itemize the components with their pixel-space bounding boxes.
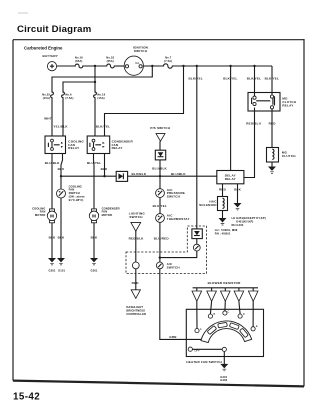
svg-text:LH G251(EXCEPT KY,KP): LH G251(EXCEPT KY,KP) (232, 216, 266, 220)
relay box cooling fan relay (45, 136, 66, 154)
wire blower resistor connector D to terminal D (239, 301, 240, 314)
svg-text:CONTROLLER: CONTROLLER (126, 312, 146, 316)
svg-text:BLK/YEL: BLK/YEL (223, 77, 237, 81)
label wire WHT (44, 116, 52, 120)
ground G101 (cooling fan switch) (58, 258, 64, 265)
MG clutch relay internals (coil + contact) (252, 95, 275, 109)
svg-text:BLU/YEL: BLU/YEL (153, 204, 167, 208)
svg-text:OFF: OFF (194, 349, 200, 353)
label wire RED/BLU (246, 122, 262, 126)
wire YEL/BLK fuse No.6 to cooling fan relay (62, 98, 64, 136)
diode box (cooling/condenser to A/C) (116, 171, 127, 181)
condenser fan relay internals (coil + contacts) (90, 139, 105, 150)
svg-text:(7.5A): (7.5A) (65, 96, 73, 100)
wire BLU/BLK cooling fan relay to cooling fan motor (51, 154, 53, 209)
wire battery junction down to fuse No.19 (94, 66, 96, 92)
svg-text:LH : 5UB01, M08: LH : 5UB01, M08 (215, 228, 238, 232)
junction dot A/C pressure switch tee (159, 175, 161, 177)
svg-text:BATTERY: BATTERY (43, 54, 58, 58)
junction dot bus A/C diode drop (196, 65, 198, 67)
label wire BLU/BLK (P/S) (152, 166, 167, 170)
svg-text:RELAY: RELAY (68, 146, 79, 150)
wire RED MG clutch relay to MG clutch (271, 108, 273, 148)
svg-text:BLU/YEL: BLU/YEL (87, 161, 101, 165)
fuse No.18 (top, before ignition switch) (106, 64, 116, 68)
junction dot bus condenser feed (182, 65, 184, 67)
svg-text:P/S SWITCH: P/S SWITCH (150, 126, 170, 130)
A/C switch dashed outline (126, 226, 207, 274)
svg-text:G201: G201 (49, 268, 56, 272)
label wire BLK/YEL (fuse 19) (96, 125, 110, 129)
heater fan switch terminal C (223, 311, 227, 315)
wire IG1 branch down and left to fuse No.25 (52, 66, 152, 92)
label wire RED (269, 122, 277, 126)
fuse No.25 (vertical) (51, 92, 54, 99)
wire delay relay RED output to HAC solenoid (222, 184, 224, 197)
svg-text:BLU: BLU (58, 167, 65, 171)
svg-text:Circuit Diagram: Circuit Diagram (17, 24, 91, 35)
label wire RED (delay relay) (219, 187, 227, 191)
dashlight brightness controller connector triangle (131, 290, 140, 299)
svg-text:RELAY: RELAY (282, 103, 293, 107)
heater fan switch terminal D (238, 314, 242, 318)
MG clutch coil symbol (272, 149, 274, 159)
heater fan switch rotary arc (201, 321, 252, 343)
svg-text:BLU/BLK: BLU/BLK (171, 172, 186, 176)
relay box MG clutch relay (248, 93, 280, 112)
label wire BLU/BLK (right of junction) (171, 172, 186, 176)
svg-text:G402: G402 (220, 378, 227, 382)
svg-text:BLK/YEL: BLK/YEL (265, 77, 279, 81)
lighting switch connector triangle (131, 222, 141, 231)
wire fuse2 to ignition switch (116, 65, 126, 67)
A/C thermostat (156, 214, 165, 223)
svg-text:SWITCH: SWITCH (129, 215, 142, 219)
A/C switch contact (upper) (193, 244, 200, 251)
svg-text:Carbureted Engine: Carbureted Engine (24, 45, 63, 50)
junction dot battery/fuse bus (94, 65, 96, 67)
svg-text:G101: G101 (58, 268, 65, 272)
ground G401 G402 (heater fan switch) (221, 364, 227, 371)
svg-text:(65A): (65A) (75, 59, 82, 63)
wire BLK/YEL bus drop to delay relay (230, 66, 232, 171)
svg-text:SWITCH: SWITCH (69, 191, 80, 195)
wire fuse1 to fuse2 (junction at x=95) (84, 65, 106, 67)
svg-text:(ON : above: (ON : above (69, 194, 86, 198)
wire horizontal BLU/BLK to diode and delay relay (61, 175, 217, 177)
wire A/C switch to dashlight brightness controller RED (135, 269, 137, 290)
cooling fan switch (thermo switch) (57, 189, 66, 198)
label wire YEL/BLK (53, 125, 68, 129)
svg-text:RH G402: RH G402 (232, 223, 244, 227)
svg-text:BLU/BLK: BLU/BLK (132, 172, 147, 176)
wire heater fan switch pivot to ground (223, 352, 225, 365)
cooling fan motor (47, 209, 56, 223)
fuse No.6 (vertical) (62, 92, 65, 99)
svg-text:RED: RED (219, 187, 227, 191)
junction dot fuse No.6 branch (94, 81, 96, 83)
svg-text:BLK: BLK (234, 187, 241, 191)
svg-text:BLK: BLK (58, 236, 65, 240)
condenser fan motor (89, 209, 98, 223)
label wire BLK (grounds row) (49, 236, 56, 240)
wire diode to A/C pressure switch (tee at y=176.2) (159, 160, 161, 189)
svg-text:BLU/BLK: BLU/BLK (45, 161, 60, 165)
wire BLK/YEL bus after fuse3 (174, 65, 272, 67)
svg-text:RELAY: RELAY (225, 177, 236, 181)
wire lighting switch connector to A/C switch RED/BLK (135, 231, 137, 262)
wire cooling fan motor to ground (51, 223, 53, 258)
svg-text:CLUTCH: CLUTCH (282, 154, 296, 158)
battery (47, 62, 56, 71)
relay box condenser fan relay (87, 136, 110, 154)
label wire BLK (delay relay) (234, 187, 241, 191)
svg-text:BLK: BLK (101, 167, 108, 171)
ground G201 (condenser fan motor) (91, 258, 97, 265)
svg-text:C: C (228, 310, 230, 313)
wire MG clutch to ground (271, 162, 273, 167)
wire blower resistor bracket (193, 288, 258, 291)
wire condenser fan motor to ground (93, 223, 95, 258)
svg-text:RED: RED (132, 281, 140, 285)
wire heater fan switch OFF to pivot (192, 348, 222, 350)
box heater fan switch (186, 309, 263, 356)
svg-text:BLU/BLK: BLU/BLK (152, 166, 167, 170)
P/S switch connector triangle (156, 134, 165, 142)
wire RED/BLU MG clutch relay to delay relay (244, 108, 255, 178)
blower resistor connector triangle 5 (248, 291, 258, 301)
wire branch to fuse No.6 (63, 82, 95, 92)
wire A/C pressure switch to A/C thermostat BLU/YEL (159, 198, 161, 214)
wire BLK/YEL bus drop to A/C switch diode (196, 66, 198, 229)
scan artifact dash top-left (18, 12, 28, 15)
svg-text:(15A): (15A) (43, 96, 50, 100)
svg-text:BLK/YEL: BLK/YEL (189, 77, 203, 81)
svg-text:HEATER FAN SWITCH: HEATER FAN SWITCH (186, 360, 222, 364)
wire BLK condenser fan relay to junction (104, 154, 106, 177)
fuse No.16 (top, after battery) (74, 64, 84, 68)
wire BLK/YEL bus corner feed to condenser fan relay (105, 66, 184, 136)
svg-text:(7.5A): (7.5A) (164, 59, 172, 63)
heater fan switch terminal E (251, 327, 255, 331)
svg-text:M: M (92, 214, 96, 219)
svg-text:SWITCH: SWITCH (167, 195, 180, 199)
A/C switch contact (illumination) (132, 262, 139, 269)
cooling fan relay internals (coil + contacts) (48, 139, 63, 150)
svg-text:GRN: GRN (169, 335, 176, 339)
svg-text:BLK/YEL: BLK/YEL (96, 125, 110, 129)
svg-text:BLOWER RESISTOR: BLOWER RESISTOR (208, 281, 242, 285)
svg-text:MOTOR: MOTOR (35, 213, 45, 217)
ground (HAC solenoid) (219, 218, 225, 225)
junction dot condenser BLK tee (103, 175, 105, 177)
svg-text:BLK: BLK (91, 236, 98, 240)
wire P/S switch connector to diode (159, 141, 161, 150)
relay box delay relay (217, 171, 244, 184)
wire ignition switch IG1 output to fuse3 (142, 65, 162, 67)
wire blower resistor connector A to terminal A (196, 301, 198, 328)
ground G201 (cooling fan motor) (49, 258, 55, 265)
border frame of diagram (13, 39, 304, 386)
blower resistor connector triangle 2 (207, 291, 217, 301)
wire cooling fan relay to cooling fan switch (61, 154, 63, 190)
svg-text:RED/BLK: RED/BLK (129, 237, 145, 241)
wire BLU/YEL condenser fan relay to condenser fan motor (93, 154, 96, 209)
wire blower resistor connector C to terminal C (224, 301, 226, 311)
wire cooling fan switch to ground (60, 198, 62, 258)
svg-text:G401(KY,KP): G401(KY,KP) (236, 219, 253, 223)
wire BLK/YEL fuse No.19 to condenser fan relay (94, 98, 96, 136)
wire delay relay BLK output to ground (237, 184, 239, 204)
box HAC solenoid (218, 197, 228, 211)
wire WHT fuse No.25 to cooling fan relay (51, 98, 53, 136)
HAC solenoid coil symbol (223, 198, 225, 208)
wire blower resistor connector B to terminal B (210, 301, 211, 314)
label wire BLU/RED (154, 237, 170, 241)
label wire BLU (58, 167, 65, 171)
label wire RED (dashlight) (132, 281, 140, 285)
heater fan switch terminal A (195, 329, 199, 333)
svg-text:91°C-98°C): 91°C-98°C) (69, 198, 84, 202)
wire blower resistor connector E to terminal E (252, 301, 254, 326)
junction dot bus delay relay drop (229, 65, 231, 67)
blower resistor connector triangle 1 (192, 291, 202, 301)
fuse No.7 (after ignition switch) (162, 64, 174, 68)
label wire GRN (169, 335, 176, 339)
junction dot IG1 branch (151, 65, 153, 67)
svg-text:YEL/BLK: YEL/BLK (53, 125, 68, 129)
label wire BLU/YEL (A/C) (153, 204, 167, 208)
junction dot cooling fan switch tee (60, 175, 62, 177)
wire HAC solenoid to ground (222, 211, 224, 219)
svg-text:THERMOSTAT: THERMOSTAT (167, 217, 190, 221)
svg-text:SOLENOID: SOLENOID (199, 203, 217, 207)
svg-text:RH : 4UB01: RH : 4UB01 (215, 231, 231, 235)
A/C pressure switch (156, 189, 165, 198)
junction dot A/C switch branch (159, 256, 161, 258)
svg-text:(15A): (15A) (97, 96, 104, 100)
label wire BLU/BLK (cooling relay out) (45, 161, 60, 165)
label wire BLU/YEL (condenser relay out) (87, 161, 101, 165)
wire A/C thermostat down to A/C switch BLU/RED (159, 222, 161, 262)
svg-text:DASHLIGHT: DASHLIGHT (126, 305, 143, 309)
svg-text:BLK/YEL: BLK/YEL (247, 77, 261, 81)
svg-text:(55A): (55A) (107, 59, 114, 63)
heater fan switch OFF terminal (188, 347, 192, 351)
heater fan switch terminal B (208, 314, 212, 318)
svg-text:SWITCH: SWITCH (134, 49, 147, 53)
wire A/C switch down to heater fan switch GRN (160, 269, 202, 340)
junction dot bus MG relay drop (253, 65, 255, 67)
blower resistor connector triangle 4 (234, 291, 244, 301)
heater fan switch pivot terminal (222, 347, 226, 351)
svg-text:D: D (243, 313, 245, 316)
label wire BLU/BLK (left of junction) (132, 172, 147, 176)
svg-text:RED: RED (269, 122, 277, 126)
wire BLK/YEL bus corner into MG clutch relay right (271, 66, 273, 96)
svg-text:RED/BLU: RED/BLU (246, 122, 262, 126)
label wire RED/BLK (129, 237, 145, 241)
svg-text:BLU/RED: BLU/RED (154, 237, 170, 241)
svg-text:M: M (50, 214, 54, 219)
svg-text:BRIGHTNESS: BRIGHTNESS (126, 309, 145, 313)
box MG clutch coil (267, 148, 279, 163)
P/S switch diode box (155, 150, 165, 160)
svg-text:RELAY: RELAY (112, 146, 123, 150)
A/C switch diode box (192, 229, 202, 239)
svg-text:MOTOR: MOTOR (102, 213, 112, 217)
label wire BLK (condenser) (101, 167, 108, 171)
wire BLK/YEL bus drop to MG clutch relay left (254, 66, 256, 96)
wire A/C switch diode branch (160, 239, 197, 258)
svg-text:IG1: IG1 (135, 61, 140, 65)
ground (delay relay BLK) (234, 203, 240, 210)
ignition switch (124, 56, 143, 75)
svg-text:15-42: 15-42 (13, 392, 40, 403)
svg-text:BLK: BLK (49, 236, 56, 240)
svg-text:SWITCH: SWITCH (167, 265, 180, 269)
svg-text:WHT: WHT (44, 116, 52, 120)
blower resistor connector triangle 3 (221, 291, 231, 301)
A/C switch contact (main) (156, 262, 163, 269)
wire battery to fuse1 (57, 65, 74, 67)
ground (MG clutch) (269, 167, 275, 174)
svg-text:G201: G201 (91, 268, 98, 272)
fuse No.19 (vertical) (94, 92, 97, 99)
svg-text:G401: G401 (220, 375, 227, 379)
